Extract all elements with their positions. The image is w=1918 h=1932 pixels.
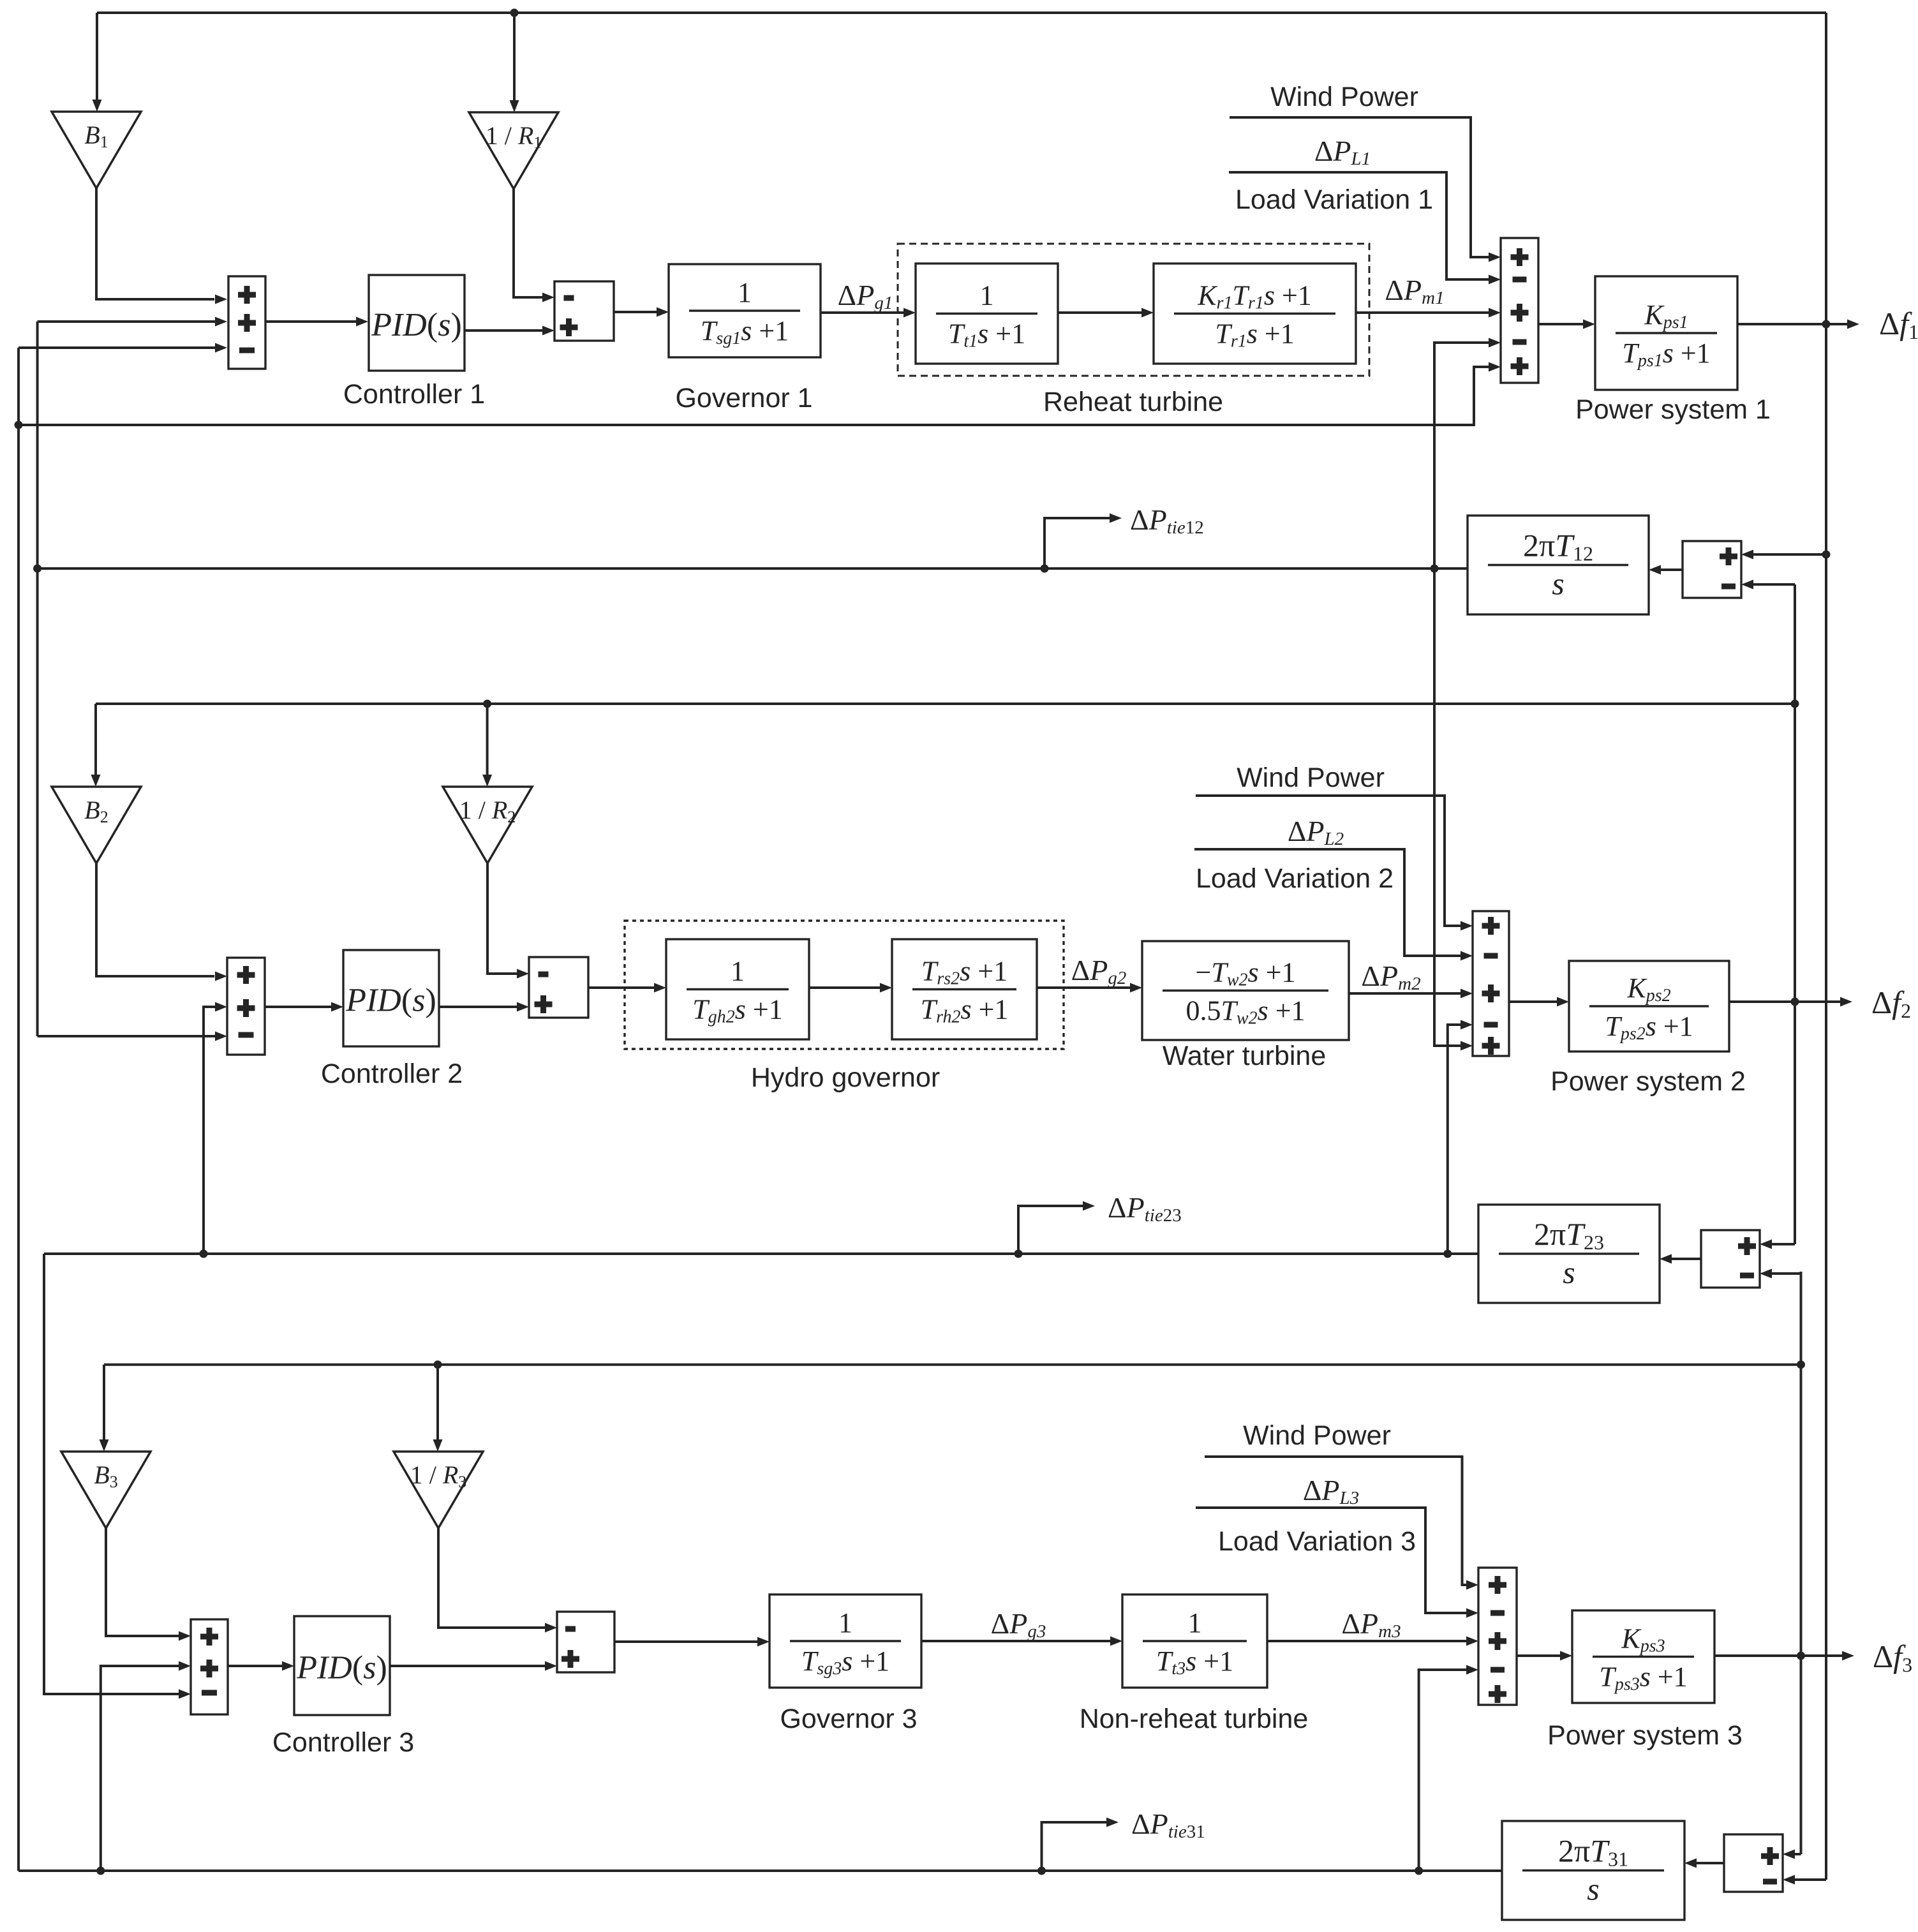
node Δf2 feed junction <box>483 700 491 708</box>
gain 1/R1 <box>469 112 558 189</box>
wire tie31 to sum1 minus <box>19 346 216 349</box>
svg-text:1: 1 <box>731 956 745 987</box>
wire into B2 <box>94 704 97 776</box>
box reheat turbine dashed <box>898 244 1369 376</box>
svg-text:Tt1s +1: Tt1s +1 <box>948 318 1025 352</box>
block governor1 <box>669 264 821 357</box>
sum controller1 <box>228 276 265 369</box>
svg-text:Load Variation 3: Load Variation 3 <box>1218 1526 1416 1557</box>
svg-text:Governor 3: Governor 3 <box>780 1704 917 1734</box>
wire load variation 3 <box>1196 1508 1467 1613</box>
wire PID3 to govsum3 <box>390 1665 546 1667</box>
svg-text:Tps2s +1: Tps2s +1 <box>1605 1011 1693 1044</box>
wire 1/R1 to govsum1 <box>514 188 543 297</box>
svg-text:1 / R2: 1 / R2 <box>459 796 516 826</box>
sum governor2 <box>529 957 588 1018</box>
svg-text:PID(s): PID(s) <box>296 1650 387 1686</box>
wire ΔPtie31 arrow <box>1042 1822 1108 1871</box>
block governor3 <box>769 1594 921 1688</box>
wire Δf2 to tiesum12 <box>1753 583 1795 586</box>
svg-text:1: 1 <box>980 280 994 311</box>
wire wind power 1 <box>1230 117 1489 257</box>
wire Δf2 feedback <box>96 702 1795 705</box>
wire Δf1 to tiesum12 <box>1753 553 1826 556</box>
svg-text:Load Variation 1: Load Variation 1 <box>1235 184 1433 215</box>
sum governor3 <box>557 1612 614 1672</box>
wire tie12 to area2 plus <box>1434 568 1461 1046</box>
svg-text:Controller 2: Controller 2 <box>321 1059 463 1089</box>
wire PID1 to govsum1 <box>465 329 543 332</box>
wire turbine1 to reheater <box>1058 311 1142 314</box>
gain 1/R2 <box>443 787 532 863</box>
wire load variation 2 <box>1194 849 1461 956</box>
svg-text:Tr1s +1: Tr1s +1 <box>1215 318 1294 352</box>
wire Δf3 to tiesum31 <box>1800 1853 1803 1855</box>
block hydro1 <box>666 939 809 1039</box>
svg-text:1: 1 <box>738 277 752 308</box>
gain B3 <box>61 1452 151 1528</box>
node Δf2 branch top <box>1791 700 1799 708</box>
svg-text:Trs2s +1: Trs2s +1 <box>921 956 1007 989</box>
node ΔPtie23 branch <box>1015 1250 1023 1258</box>
gain B1 <box>52 112 141 188</box>
sum power3 <box>1478 1568 1517 1705</box>
svg-text:Wind Power: Wind Power <box>1270 82 1418 112</box>
wire tiesum23 to block <box>1671 1258 1701 1260</box>
wire into 1/R1 <box>513 13 516 101</box>
block 2piT12 <box>1468 516 1649 614</box>
wire ΔPtie12 line <box>38 567 1468 570</box>
svg-text:Governor 1: Governor 1 <box>675 383 812 413</box>
wire 1/R2 to govsum2 <box>487 863 517 974</box>
controller PID3 <box>294 1616 390 1715</box>
node Δf3 branch top <box>1797 1360 1805 1369</box>
wire sum to PS2 <box>1509 1000 1557 1003</box>
wire B3 to sum3 <box>106 1528 179 1636</box>
wire ΔPm2 to sum <box>1349 992 1461 995</box>
wire sum1 to PID1 <box>265 320 357 323</box>
wire into B3 <box>103 1365 105 1441</box>
wire B2 to sum2 <box>96 863 214 976</box>
wire Δf3 to tiesum23 <box>1771 1272 1801 1275</box>
wire sum to PS1 <box>1538 323 1584 325</box>
block water turbine <box>1142 941 1349 1040</box>
node tie12 fb <box>33 565 41 573</box>
wire Δf1 vertical <box>1825 13 1827 1880</box>
wire sum3 to PID3 <box>228 1665 283 1667</box>
node tie12 branch a12 <box>1431 565 1439 573</box>
wire ΔPtie12 arrow <box>1044 518 1110 568</box>
block 2piT23 <box>1478 1205 1660 1303</box>
sum controller2 <box>227 958 265 1055</box>
block 2piT31 <box>1502 1821 1684 1920</box>
svg-text:Power system 2: Power system 2 <box>1550 1066 1746 1097</box>
wire B1 to sum1 <box>96 188 214 299</box>
block power system1 <box>1595 276 1737 390</box>
wire into 1/R2 <box>486 704 489 776</box>
svg-text:Controller 3: Controller 3 <box>272 1727 414 1758</box>
sum controller3 <box>191 1619 228 1714</box>
svg-text:1: 1 <box>1188 1607 1202 1638</box>
node Δf2 <box>1791 998 1799 1006</box>
wire ΔPg2 to water <box>1037 986 1131 989</box>
wire ΔPm3 to sum <box>1267 1640 1467 1642</box>
wire tie31 to area3 minus <box>1419 1670 1467 1871</box>
block nonreheat turbine <box>1122 1594 1267 1688</box>
wire governor1 to reheat <box>821 311 904 314</box>
node tie31 branch a31 <box>1415 1867 1423 1875</box>
node Δf3 feed junction <box>434 1360 442 1369</box>
sum power2 <box>1473 911 1509 1056</box>
svg-text:s: s <box>1587 1871 1599 1907</box>
wire Δf3 out <box>1714 1654 1843 1657</box>
node Δf1 <box>1822 320 1831 329</box>
svg-text:Controller 1: Controller 1 <box>343 379 485 410</box>
wire a31 line y666 <box>19 367 1489 425</box>
block reheater1 <box>1154 264 1356 364</box>
wire into B1 <box>96 13 98 101</box>
svg-text:Trh2s +1: Trh2s +1 <box>921 994 1009 1027</box>
wire hydro1 to hydro2 <box>809 986 881 989</box>
wire ΔPtie23 arrow <box>1018 1206 1083 1254</box>
wire tie31 to sum3 mid <box>101 1666 179 1871</box>
svg-text:PID(s): PID(s) <box>345 983 436 1019</box>
svg-text:Reheat turbine: Reheat turbine <box>1043 387 1223 417</box>
wire tie31 fb vertical x29 <box>17 348 20 1871</box>
node Δf1 to tie12sum <box>1822 551 1831 559</box>
node tie23 branch a23 <box>1443 1250 1452 1258</box>
svg-text:Water turbine: Water turbine <box>1163 1041 1327 1071</box>
node ΔPtie12 branch <box>1041 565 1049 573</box>
sum tie12 <box>1683 541 1741 598</box>
svg-text:Tt3s +1: Tt3s +1 <box>1156 1646 1233 1679</box>
svg-text:Power system 3: Power system 3 <box>1547 1720 1743 1751</box>
wire Δf2 vertical <box>1794 584 1796 1244</box>
wire Δf1 to tiesum31 <box>1794 1878 1826 1881</box>
block hydro2 <box>892 939 1037 1039</box>
wire wind power 2 <box>1196 796 1461 926</box>
svg-text:Tsg3s +1: Tsg3s +1 <box>801 1646 889 1679</box>
wire Δf3 feedback <box>104 1364 1801 1366</box>
wire sum to PS3 <box>1517 1654 1561 1657</box>
wire into 1/R3 <box>436 1365 439 1441</box>
wire PID2 to govsum2 <box>439 1006 517 1008</box>
wire tiesum31 to block <box>1696 1862 1724 1864</box>
svg-text:Tps1s +1: Tps1s +1 <box>1622 338 1710 371</box>
wire govsum2 to hydro <box>588 986 655 989</box>
controller PID1 <box>369 275 465 371</box>
block turbine1 <box>916 264 1058 364</box>
gain 1/R3 <box>394 1452 483 1528</box>
wire tie12 to sum2 minus <box>38 1035 216 1037</box>
node tie31 fb to area1 <box>15 421 23 429</box>
svg-text:PID(s): PID(s) <box>371 307 462 343</box>
node Δf3 <box>1797 1652 1805 1660</box>
svg-text:Power system 1: Power system 1 <box>1575 394 1771 425</box>
svg-text:Tsg1s +1: Tsg1s +1 <box>701 315 789 348</box>
wire tie12 to sum1 mid <box>38 320 216 323</box>
wire tie23 to sum2 mid <box>204 1007 216 1254</box>
svg-text:Load Variation 2: Load Variation 2 <box>1196 863 1394 894</box>
node ΔPtie31 branch <box>1037 1867 1046 1875</box>
sum power1 <box>1501 238 1538 383</box>
wire ΔPtie23 line <box>44 1252 1478 1255</box>
block power system3 <box>1572 1610 1714 1703</box>
node tie23 to area2 <box>200 1250 208 1258</box>
sum governor1 <box>554 281 614 341</box>
wire sum2 to PID2 <box>265 1006 332 1008</box>
wire Δf1 out <box>1737 323 1848 325</box>
wire Δf3 vertical <box>1800 1272 1803 1854</box>
svg-text:Hydro governor: Hydro governor <box>751 1062 940 1093</box>
controller PID2 <box>343 950 439 1046</box>
wire Δf2 out <box>1729 1000 1841 1003</box>
svg-text:s: s <box>1563 1254 1575 1290</box>
svg-text:1 / R3: 1 / R3 <box>410 1460 467 1491</box>
wire tie23 to sum3 minus <box>44 1254 179 1694</box>
wire tie23 to area2 minus <box>1448 1025 1461 1254</box>
svg-text:1: 1 <box>838 1607 852 1638</box>
svg-text:Non-reheat turbine: Non-reheat turbine <box>1080 1704 1309 1734</box>
wire tiesum12 to block <box>1660 568 1683 571</box>
node tie31 to area3 <box>96 1867 105 1875</box>
wire tie12 fb vertical x58 <box>36 322 39 1036</box>
svg-text:Wind Power: Wind Power <box>1243 1420 1391 1451</box>
svg-text:Tps3s +1: Tps3s +1 <box>1599 1661 1687 1695</box>
svg-text:Tgh2s +1: Tgh2s +1 <box>692 994 782 1027</box>
wire wind power 3 <box>1205 1457 1467 1585</box>
wire load variation 1 <box>1229 172 1489 279</box>
wire ΔPm1 to sum <box>1356 311 1489 314</box>
wire govsum1 to governor1 <box>614 311 657 313</box>
gain B2 <box>52 787 141 863</box>
wire Δf1 feedback top <box>97 11 1826 14</box>
wire 1/R3 to govsum3 <box>438 1528 546 1628</box>
svg-text:Wind Power: Wind Power <box>1237 762 1385 793</box>
wire tie12 to area1 minus <box>1434 343 1489 568</box>
block power system2 <box>1569 961 1729 1051</box>
svg-text:s: s <box>1552 566 1564 602</box>
wire govsum3 to governor3 <box>614 1640 758 1643</box>
wire ΔPtie31 line <box>19 1869 1502 1872</box>
sum tie31 <box>1724 1834 1783 1892</box>
wire Δf2 to tiesum23 <box>1794 1244 1796 1244</box>
box hydro governor dashed <box>625 921 1064 1049</box>
node top feed junction <box>510 9 519 17</box>
wire ΔPg3 to turbine <box>921 1640 1111 1642</box>
svg-text:1 / R1: 1 / R1 <box>486 121 542 152</box>
sum tie23 <box>1701 1230 1760 1288</box>
